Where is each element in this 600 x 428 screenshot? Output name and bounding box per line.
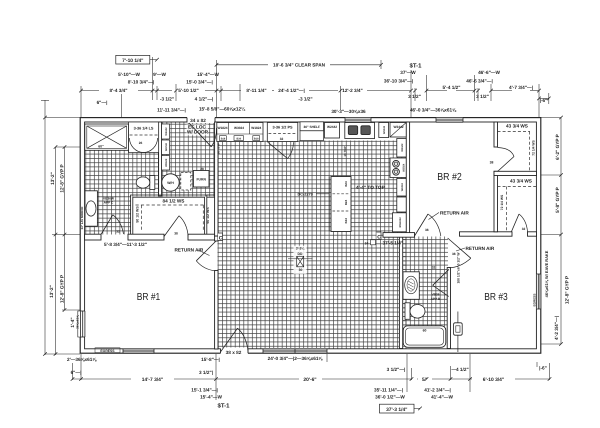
bath2 left wall: [399, 237, 402, 349]
svg-text:5'-8 3/4"—11'-3 1/2": 5'-8 3/4"—11'-3 1/2": [104, 242, 147, 247]
return air leader BR2: [429, 213, 440, 220]
svg-text:W1824: W1824: [251, 126, 261, 130]
svg-text:8'-11 1/4": 8'-11 1/4": [246, 88, 266, 93]
svg-text:46⅝x61⅝ W/ EAVE RAKE: 46⅝x61⅝ W/ EAVE RAKE: [544, 250, 549, 297]
closet BR1 walls: [131, 195, 215, 234]
window top wall kitchen sink 30x36: [345, 117, 371, 123]
BR1 closet door 38: [164, 216, 179, 237]
kitchen sink unit: [345, 123, 375, 139]
pantry 3-36 1/2 PS: [267, 123, 298, 142]
svg-text:B24: B24: [344, 181, 348, 187]
svg-text:W2442: W2442: [165, 127, 168, 136]
BR1 right wall upper jamb: [215, 236, 218, 241]
svg-text:34" LAV MIRROR: 34" LAV MIRROR: [80, 207, 84, 230]
svg-text:15'-4"—W: 15'-4"—W: [200, 395, 222, 400]
marriage marker C right: [377, 232, 382, 240]
boxed dim 7-10 1/4: [116, 55, 150, 64]
marriage wall right segment a: [383, 233, 415, 238]
white halo for entry door labels: [187, 124, 209, 135]
BR2 closet wall horizontal: [494, 171, 537, 175]
washer dryer dashed box: [181, 173, 191, 191]
svg-text:13'-2": 13'-2": [50, 172, 55, 185]
svg-text:14'-7 3/4": 14'-7 3/4": [142, 377, 163, 383]
BR2 closet wall vertical lower: [494, 171, 498, 232]
svg-text:38: 38: [452, 252, 456, 256]
svg-text:12'-8" GYP P: 12'-8" GYP P: [59, 275, 64, 303]
svg-text:13'-2": 13'-2": [49, 285, 54, 298]
svg-text:12'-8" GYP P: 12'-8" GYP P: [564, 276, 569, 304]
svg-text:15'-8 5/8"—60⅝x12¼: 15'-8 5/8"—60⅝x12¼: [199, 107, 246, 112]
svg-text:APP C: APP C: [104, 201, 114, 205]
svg-text:37'-3 1/4": 37'-3 1/4": [386, 407, 407, 413]
window bottom wall BR1 egress: [123, 348, 154, 354]
svg-text:32: 32: [116, 230, 120, 234]
svg-text:W/H: W/H: [167, 181, 174, 185]
svg-text:34 x 82: 34 x 82: [190, 118, 206, 123]
svg-text:B30: B30: [237, 138, 242, 141]
kitchen right wall: [406, 122, 409, 236]
BR1 entry door: [196, 241, 216, 261]
svg-text:5'-4 1/2": 5'-4 1/2": [443, 85, 461, 90]
cabinet below range: [397, 179, 406, 197]
svg-text:EGRESS: EGRESS: [533, 294, 537, 307]
main bottom dim line: [73, 378, 132, 380]
window top wall BR2: [436, 117, 463, 123]
tile floor utility corridor: [162, 122, 216, 197]
furnace FURN: [193, 171, 209, 188]
svg-text:60: 60: [423, 329, 427, 333]
svg-text:100 1/2"x6'-0 1/2" W: 100 1/2"x6'-0 1/2" W: [456, 252, 460, 284]
svg-text:W1824: W1824: [217, 126, 227, 130]
svg-text:37'—W: 37'—W: [400, 70, 416, 75]
clear span dim line: [217, 64, 269, 66]
svg-text:5'-10 1/2": 5'-10 1/2": [178, 88, 199, 93]
svg-text:7'-10 1/4": 7'-10 1/4": [122, 58, 143, 64]
BR2 closet A dashed shelves: [498, 132, 531, 172]
tile floor bath 1: [85, 150, 160, 197]
shelf cabinet 36 SHELF: [300, 122, 324, 131]
pantry door leaf and arc: [268, 142, 288, 159]
svg-text:34: 34: [365, 241, 369, 245]
svg-text:32: 32: [522, 227, 526, 231]
svg-text:9'—W: 9'—W: [153, 72, 166, 77]
svg-text:B18: B18: [221, 138, 226, 141]
svg-text:W2442: W2442: [401, 143, 404, 152]
BR3 electrical box: [454, 323, 463, 335]
DD ceiling marker: [294, 246, 307, 274]
marriage wall left segment a: [85, 234, 101, 240]
rear door opening bottom wall: [221, 348, 249, 355]
tile floor bath 1 lower strip: [85, 196, 132, 235]
BR3 door: [448, 238, 471, 258]
svg-text:38: 38: [425, 228, 429, 232]
svg-text:EGRESS: EGRESS: [100, 349, 115, 353]
svg-text:50 1/2 WS: 50 1/2 WS: [206, 207, 210, 224]
svg-text:FURN: FURN: [196, 178, 206, 182]
svg-text:W2442: W2442: [393, 125, 403, 129]
BR1 right wall: [215, 271, 218, 350]
upper cabinets left group: [217, 123, 263, 142]
marriage wall left segment b: [128, 234, 164, 240]
toilet bath2: [405, 303, 425, 320]
svg-text:36" GYP: 36" GYP: [216, 143, 220, 154]
svg-text:C: C: [219, 236, 223, 242]
BR2 closet A door: [498, 157, 515, 172]
range with burners: [390, 158, 406, 178]
svg-text:RETURN AIR: RETURN AIR: [466, 246, 495, 251]
svg-text:10 TOP: 10 TOP: [343, 146, 347, 156]
svg-text:C: C: [377, 235, 381, 241]
closet BR1 shelf dashed: [136, 205, 204, 232]
double window bottom wall great room: [263, 348, 327, 354]
washer cabinet strip: [162, 124, 170, 170]
inner wall rectangle: [85, 122, 537, 349]
boxed dim 37-3 1/4: [380, 404, 415, 413]
svg-text:5": 5": [422, 377, 427, 383]
tile floor great room / kitchen: [218, 141, 407, 350]
entry door top: [189, 123, 211, 147]
svg-text:BR #1: BR #1: [137, 292, 161, 303]
shower 60in with X: [85, 124, 129, 150]
water heater W/H: [162, 174, 179, 191]
svg-text:18'-6 3/4" CLEAR SPAN: 18'-6 3/4" CLEAR SPAN: [273, 62, 326, 67]
svg-text:28: 28: [200, 167, 204, 171]
svg-text:72 1/4 WS: 72 1/4 WS: [500, 194, 504, 210]
utility wall vertical: [159, 122, 162, 196]
svg-text:3-36 1/4 LS: 3-36 1/4 LS: [134, 127, 154, 131]
svg-text:6'-10 3/4": 6'-10 3/4": [483, 377, 504, 383]
svg-text:38 x 82: 38 x 82: [226, 350, 242, 355]
BR2 door: [415, 214, 429, 236]
svg-text:84 1/2 WS: 84 1/2 WS: [163, 198, 185, 203]
svg-text:-3 1/2": -3 1/2": [160, 96, 174, 101]
svg-text:43 3/4 WS: 43 3/4 WS: [510, 179, 532, 184]
vanity bath2: [403, 272, 419, 300]
svg-text:W3024: W3024: [403, 163, 406, 172]
bath2 BR3 wall: [447, 268, 450, 349]
svg-text:W2442: W2442: [327, 125, 337, 129]
svg-text:30: 30: [299, 268, 303, 272]
closet B door: [512, 214, 520, 232]
tick marks top: [79, 63, 550, 100]
svg-text:38: 38: [174, 231, 178, 235]
svg-text:60": 60": [98, 145, 104, 149]
svg-text:36'-0 1/2"—W: 36'-0 1/2"—W: [375, 395, 405, 400]
marriage marker C left: [218, 233, 223, 241]
svg-text:W3024: W3024: [234, 126, 244, 130]
svg-text:46'-6"—W: 46'-6"—W: [478, 70, 500, 75]
svg-text:W/ DOOR: W/ DOOR: [187, 129, 209, 134]
kitchen left wall strip: [215, 122, 218, 236]
svg-text:36⅝x61⅝: 36⅝x61⅝: [75, 315, 79, 329]
svg-text:32: 32: [432, 266, 436, 270]
vanity bath1: [85, 191, 97, 226]
svg-text:37'-5 1/4": 37'-5 1/4": [383, 241, 404, 246]
svg-text:1'-4": 1'-4": [70, 317, 75, 327]
corner cabinet: [390, 123, 406, 138]
svg-text:41'-4"—W: 41'-4"—W: [431, 395, 453, 400]
svg-text:B18: B18: [254, 138, 259, 141]
outer wall rectangle: [80, 118, 541, 354]
kitchen island B24: [331, 177, 351, 232]
svg-text:B24: B24: [344, 218, 348, 224]
linen closet bifold arcs: [130, 138, 144, 153]
cabinet B15: [397, 197, 406, 212]
svg-text:DD: DD: [298, 252, 303, 256]
svg-text:RETURN AIR: RETURN AIR: [175, 248, 204, 253]
bath2 door 32: [433, 269, 449, 285]
svg-text:$T-1: $T-1: [409, 63, 422, 70]
cabinet W2442 left of sink: [325, 123, 340, 139]
window right wall BR3 egress: [536, 274, 542, 309]
svg-text:-3 1/2": -3 1/2": [298, 96, 312, 101]
extension lines top: [80, 86, 82, 117]
svg-text:3 1/2": 3 1/2": [476, 94, 489, 99]
toilet bath1: [136, 176, 155, 190]
svg-text:8'-4 3/4": 8'-4 3/4": [110, 88, 128, 93]
marriage wall left segment c: [188, 234, 218, 240]
svg-text:5'-8" GYP P: 5'-8" GYP P: [555, 187, 560, 213]
svg-text:BR #3: BR #3: [484, 292, 508, 303]
svg-text:12'-8" GYP P: 12'-8" GYP P: [60, 164, 65, 192]
svg-text:BW2442: BW2442: [399, 217, 402, 228]
linen closet box: [129, 122, 159, 153]
svg-text:43 3/4 WS: 43 3/4 WS: [506, 124, 528, 129]
linen closet shelf dashed: [130, 134, 158, 136]
tub 60: [403, 326, 446, 348]
cabinet W2442 right of sink: [379, 123, 389, 138]
svg-text:32: 32: [280, 137, 284, 141]
svg-text:2'—36⅝x61⅝: 2'—36⅝x61⅝: [67, 357, 97, 362]
svg-text:20'-6": 20'-6": [303, 377, 316, 383]
svg-text:W2442: W2442: [401, 183, 404, 192]
main top dim line: [81, 90, 99, 92]
svg-text:W2442: W2442: [165, 158, 168, 167]
marriage wall right segment c: [528, 232, 537, 236]
svg-text:26: 26: [139, 141, 143, 145]
svg-text:BR #2: BR #2: [437, 172, 462, 183]
svg-text:72 1/4 WS: 72 1/4 WS: [532, 140, 536, 156]
svg-text:WASH: WASH: [165, 143, 168, 151]
bath1 door 32: [101, 215, 113, 234]
entry door opening top wall: [187, 117, 215, 124]
svg-text:15'-4"—W: 15'-4"—W: [197, 72, 219, 77]
svg-text:36" SHELF: 36" SHELF: [304, 125, 320, 129]
cabinet W2442 tall: [397, 139, 406, 158]
rear door 38x82: [221, 328, 238, 351]
svg-text:3-36 1/2 PS: 3-36 1/2 PS: [272, 126, 293, 130]
svg-text:30'-3"—30⅝x36: 30'-3"—30⅝x36: [331, 109, 366, 114]
svg-text:4'-4" TO TOP: 4'-4" TO TOP: [356, 185, 385, 190]
svg-text:6'-2" GYP P: 6'-2" GYP P: [555, 134, 560, 160]
BR2 closet wall vertical upper: [494, 122, 498, 147]
svg-text:DC-2279: DC-2279: [298, 192, 313, 196]
window left wall BR1 egress: [78, 311, 81, 337]
svg-text:12'-2 3/4": 12'-2 3/4": [342, 88, 363, 93]
svg-text:3'-3¼: 3'-3¼: [296, 247, 306, 251]
svg-text:RETURN AIR: RETURN AIR: [440, 211, 469, 216]
svg-text:$T-1: $T-1: [217, 403, 230, 410]
svg-text:46'-0 3/4"—36⅝x61⅝: 46'-0 3/4"—36⅝x61⅝: [410, 108, 457, 113]
svg-text:38: 38: [490, 161, 494, 165]
svg-text:B24: B24: [344, 199, 348, 205]
BR3 closet B dashed shelves: [498, 187, 537, 231]
tile floor hallway and bath 2: [403, 237, 449, 327]
svg-text:3 1/2": 3 1/2": [408, 94, 421, 99]
svg-text:5'-10"—W: 5'-10"—W: [118, 72, 140, 77]
svg-text:—4 1/2": —4 1/2": [451, 367, 468, 372]
svg-text:W2442: W2442: [383, 125, 386, 134]
cabinet BW2442: [393, 213, 407, 232]
marriage wall right segment b: [460, 232, 513, 236]
svg-text:50 1/2 WS: 50 1/2 WS: [135, 206, 139, 223]
svg-text:APP B: APP B: [431, 297, 441, 301]
